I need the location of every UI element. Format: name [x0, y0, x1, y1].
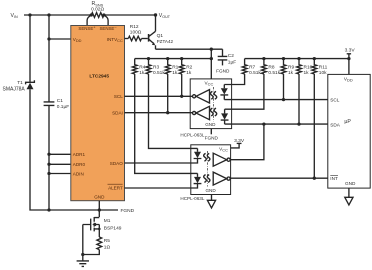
wire ADR1 pin wire [49, 153, 71, 155]
IC U1 LTC2945 [71, 26, 125, 201]
junction rail/R3 [147, 57, 150, 60]
wire ADIN pin wire [49, 173, 71, 175]
svg-text:1k: 1k [304, 70, 310, 76]
wire opto1 GND stub [210, 129, 212, 135]
svg-text:FGND: FGND [205, 135, 219, 140]
svg-text:ADIN: ADIN [73, 171, 84, 176]
svg-text:1k: 1k [139, 70, 145, 76]
junction R10/SDA uP [297, 122, 300, 125]
svg-text:GND: GND [94, 195, 105, 200]
junction rail/3.3V terminal [347, 57, 350, 60]
wire SDAI to opto1 out2 [125, 112, 193, 114]
opto1 channel1 receiver [193, 95, 196, 98]
opto2 channel1 light squiggles [204, 153, 207, 161]
resistor R7 [242, 59, 247, 74]
wire opto2 LED1 cathode to SDAO [125, 159, 198, 163]
svg-text:1k: 1k [288, 70, 294, 76]
svg-text:R5: R5 [104, 238, 110, 244]
svg-text:1Ω: 1Ω [104, 244, 111, 250]
opto1 channel2 light squiggles [210, 108, 213, 116]
junction R9/SCL uP [282, 98, 285, 101]
svg-text:0.51k: 0.51k [268, 70, 280, 76]
opto2 channel1 receiver [213, 153, 227, 166]
wire SCL to uP [224, 99, 327, 101]
svg-text:3.3V: 3.3V [345, 48, 356, 54]
junction rail/R10 [297, 57, 300, 60]
opto2 channel2 receiver [213, 172, 227, 185]
svg-text:1µF: 1µF [228, 60, 236, 66]
wire VDD pin wire [49, 38, 71, 40]
wire 3.3V to uP VDD [348, 59, 350, 75]
wire earth stem [82, 255, 84, 261]
svg-text:FGND: FGND [216, 68, 230, 73]
LED opto2 channel2 [197, 173, 199, 177]
wire R3 to opto2 LED1 anode [149, 74, 198, 148]
junction ADR0 tap [47, 163, 50, 166]
isolation barrier opto1 [213, 87, 215, 122]
junction R11/INT [313, 177, 316, 180]
svg-text:C2: C2 [228, 53, 234, 59]
junction rail/R8 [262, 57, 265, 60]
wire emitter rail [156, 48, 223, 50]
junction RSNS left / SENSE+ [90, 13, 93, 16]
wire opto2 VCC to 3.3V [231, 143, 240, 148]
power 3.3V terminal at opto2 [237, 142, 242, 144]
wire R8 to opto1 LED2 anode [225, 74, 264, 109]
svg-text:HCPL-063L: HCPL-063L [180, 196, 204, 201]
wire M1 gate return wire [82, 225, 84, 255]
wire rail RSNS to VOUT [104, 14, 156, 16]
svg-text:R11: R11 [319, 64, 328, 70]
svg-text:R8: R8 [268, 64, 274, 70]
wire T1 to FGND rail [30, 89, 118, 210]
junction rail/R1 [166, 57, 169, 60]
junction C1 line / FGND rail [47, 208, 50, 211]
wire C1 branch down [48, 15, 50, 102]
svg-text:SCL: SCL [330, 97, 340, 102]
svg-text:SMAJ78A: SMAJ78A [3, 87, 26, 93]
junction GND pin / FGND rail [98, 208, 101, 211]
wire ADR0 pin wire [49, 163, 71, 165]
resistor R4 [132, 59, 137, 74]
svg-text:M1: M1 [104, 218, 111, 224]
isolation barrier opto2 [207, 151, 209, 187]
svg-text:1k: 1k [186, 70, 192, 76]
junction rail/R11 [313, 57, 316, 60]
opto1 channel1 light squiggles [210, 91, 213, 99]
junction rail/R9 [282, 57, 285, 60]
wire SENSE+ lead [87, 15, 91, 26]
svg-text:HCPL-063L: HCPL-063L [180, 132, 204, 137]
wire R4 to opto2 LED2 anode [135, 74, 198, 173]
svg-text:ADR1: ADR1 [73, 152, 86, 157]
wire GND pin down to M1 [98, 201, 100, 217]
op-amp U2 optocoupler HCPL-063L top [190, 79, 231, 129]
capacitor C2 [218, 56, 228, 60]
opto1 channel2 receiver [193, 111, 196, 114]
wire R1 to SDAI wire [167, 74, 169, 113]
svg-text:10k: 10k [319, 70, 327, 76]
junction rail/R2 [180, 57, 183, 60]
op-amp U3 optocoupler HCPL-063L bottom [191, 145, 231, 195]
junction VIN rail / C1 branch [47, 13, 50, 16]
svg-text:SDAI: SDAI [112, 111, 123, 116]
resistor R8 [262, 59, 267, 74]
capacitor C1 [44, 102, 55, 106]
wire R7 to opto1 LED1 anode [224, 74, 244, 85]
wire VIN down to T1 [29, 15, 31, 82]
wire opto2 LED2 cathode to ALERT [125, 184, 198, 188]
junction emitter rail / opto1 VCC [210, 48, 213, 51]
wire R11 to INT wire [313, 74, 315, 178]
transistor M1 BSP149 [94, 217, 99, 231]
LED opto2 channel1 [197, 148, 199, 151]
IC U4 microprocessor [328, 74, 370, 188]
wire R9 to SCL uP [283, 74, 285, 100]
svg-text:R1: R1 [172, 64, 178, 70]
resistor R1 [165, 59, 170, 74]
svg-text:SDA: SDA [330, 122, 341, 127]
wire uP GND stub [348, 188, 350, 197]
wire Q1 emitter down [155, 45, 157, 49]
svg-text:GND: GND [345, 181, 356, 186]
wire SENSE- lead [104, 15, 108, 26]
wire opto1 VCC riser [210, 49, 212, 79]
junction M1 source/body [98, 228, 101, 231]
transistor Q1 PZTA42 [148, 34, 150, 42]
junction VIN rail / T1 [28, 13, 31, 16]
junction R1/SDAI [166, 111, 169, 114]
junction rail/opto1 VCC line [210, 57, 213, 60]
resistor R12 body [128, 36, 141, 41]
svg-text:0.51k: 0.51k [153, 70, 165, 76]
resistor R10 [297, 59, 302, 74]
svg-text:GND: GND [205, 188, 216, 193]
wire SDA to uP [225, 123, 328, 125]
LED opto1 channel2 [224, 109, 226, 113]
junction gate/R5/earth node [81, 253, 84, 256]
junction R2/SCL [180, 95, 183, 98]
resistor R5 [97, 237, 102, 250]
junction VDD tap [47, 37, 50, 40]
svg-text:R4: R4 [139, 64, 145, 70]
svg-text:0.1µF: 0.1µF [57, 104, 69, 110]
wire VIN rail left [24, 14, 91, 16]
wire 3.3V rail right [245, 58, 349, 60]
svg-text:INT: INT [330, 176, 338, 181]
svg-text:RSNS: RSNS [92, 1, 104, 7]
svg-text:C1: C1 [57, 98, 63, 104]
wire Q1 collector to VOUT [155, 15, 157, 31]
wire C2 bottom stub [222, 60, 224, 66]
wire opto2 out1 to SDA [230, 124, 264, 160]
resistor R11 [312, 59, 317, 74]
wire opto2 GND stub [211, 195, 213, 201]
svg-text:0.02Ω: 0.02Ω [91, 6, 104, 12]
svg-text:µP: µP [344, 119, 351, 125]
resistor R2 [179, 59, 184, 74]
svg-text:GND: GND [205, 122, 216, 127]
svg-text:BSP149: BSP149 [104, 226, 122, 232]
junction node VOUT terminal [154, 13, 157, 16]
resistor R3 [146, 59, 151, 74]
wire rail to C2 [222, 49, 224, 56]
wire R10 to SDA uP [298, 74, 300, 124]
svg-text:1k: 1k [172, 70, 178, 76]
diode T1 SMAJ78A TVS [26, 80, 35, 84]
svg-text:3.3V: 3.3V [234, 138, 245, 144]
junction ADIN tap [47, 172, 50, 175]
svg-text:PZTA42: PZTA42 [157, 39, 174, 44]
wire R5 bottom to earth node [83, 250, 100, 255]
wire opto2 out2 / INT to uP [230, 177, 327, 179]
svg-text:0.51k: 0.51k [249, 70, 261, 76]
svg-text:R3: R3 [153, 64, 159, 70]
wire R2 to SCL wire [181, 74, 183, 96]
svg-text:ADR0: ADR0 [73, 162, 86, 167]
svg-text:T1: T1 [17, 80, 23, 86]
wire C1 bottom to FGND rail [48, 105, 50, 210]
svg-text:R7: R7 [249, 64, 255, 70]
junction SDA / opto2 out1 riser [262, 122, 265, 125]
svg-text:R12: R12 [130, 24, 139, 30]
wire LTC-side pullup rail [135, 58, 212, 60]
svg-text:100Ω: 100Ω [130, 30, 142, 36]
opto2 channel2 light squiggles [204, 175, 207, 183]
wire INTVCC to R12 [125, 38, 129, 40]
wire R12 to Q1 base [142, 38, 148, 40]
svg-text:LTC2945: LTC2945 [89, 73, 109, 79]
svg-text:FGND: FGND [121, 208, 135, 214]
svg-text:R2: R2 [186, 64, 192, 70]
svg-text:SCL: SCL [114, 94, 123, 99]
resistor R9 [281, 59, 286, 74]
resistor RSNS body [91, 13, 104, 18]
wire SCL to opto1 out1 [125, 95, 193, 97]
wire 3.3V stub [348, 54, 350, 59]
LED opto1 channel1 [223, 85, 225, 89]
junction RSNS right / SENSE- [102, 13, 105, 16]
svg-text:ALERT: ALERT [108, 185, 123, 190]
svg-text:SDAO: SDAO [110, 161, 123, 166]
svg-text:Q1: Q1 [157, 33, 164, 39]
svg-text:R9: R9 [288, 64, 294, 70]
junction ADR1 tap [47, 153, 50, 156]
